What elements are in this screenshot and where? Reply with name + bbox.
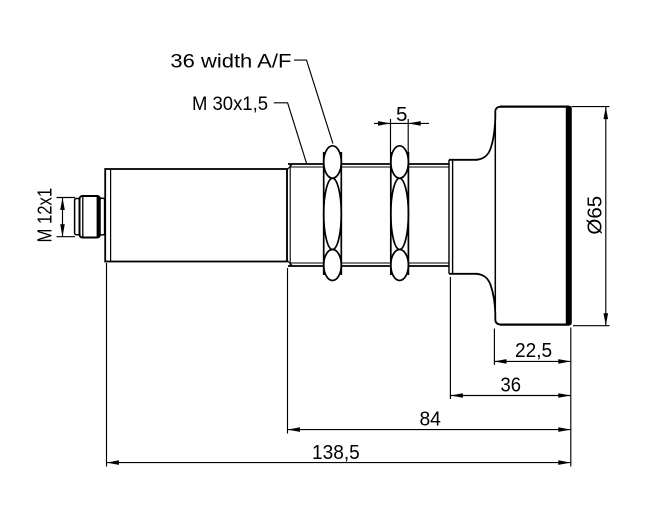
Ø65 arrow down bbox=[604, 313, 609, 326]
36 arrow right bbox=[558, 393, 571, 398]
hex nut N2 bottom facet ellipse bbox=[391, 250, 409, 281]
thread start face line inner bbox=[289, 164, 291, 266]
svg-text:36: 36 bbox=[501, 374, 522, 397]
hex nut N1 left side line bbox=[323, 152, 325, 275]
thread minor line top segment 2 bbox=[341, 166, 391, 168]
thread major line top segment 1 bbox=[288, 163, 324, 165]
5 dimension extension line right bbox=[407, 119, 409, 152]
head flare curve bottom bbox=[477, 274, 502, 325]
hex nut N2 left side line bbox=[390, 152, 392, 275]
M12 dimension extension line bottom bbox=[57, 236, 76, 238]
hex nut N2 top facet ellipse bbox=[391, 146, 409, 178]
M12 connector end ring bbox=[75, 199, 80, 235]
M12 connector barrel right dark band bbox=[97, 197, 100, 237]
36 extension line left bbox=[449, 277, 451, 399]
22,5 arrow right bbox=[558, 359, 571, 364]
5 dimension extension line left bbox=[390, 119, 392, 152]
svg-text:138,5: 138,5 bbox=[312, 441, 360, 464]
hex nut N1 bottom facet ellipse bbox=[324, 250, 342, 281]
138,5 extension line left bbox=[106, 263, 108, 467]
M12 connector collar bbox=[100, 198, 105, 235]
22,5 extension line left bbox=[493, 329, 495, 365]
leader line for 36 width A/F bbox=[294, 60, 333, 143]
head disc bottom edge bbox=[500, 324, 569, 326]
M12 dimension arrow down bbox=[60, 224, 65, 237]
84 arrow left bbox=[288, 427, 301, 432]
Ø65 extension line bottom bbox=[573, 325, 610, 327]
36 dimension line bbox=[450, 395, 570, 397]
sensor body cylinder outline bbox=[105, 169, 287, 262]
M12 dimension arrow up bbox=[60, 198, 65, 211]
svg-text:M 12x1: M 12x1 bbox=[34, 188, 57, 243]
head disc top edge bbox=[500, 105, 569, 107]
thread major line bottom segment 1 bbox=[288, 265, 324, 267]
thread start chamfer top bbox=[287, 164, 293, 170]
5 dimension arrow right (pointing left) bbox=[408, 121, 421, 126]
84 dimension line bbox=[288, 429, 571, 431]
hex nut N1 right side line bbox=[340, 152, 342, 275]
flange top edge bbox=[449, 159, 478, 161]
hex nut N1 mask bbox=[324, 146, 342, 281]
flange bottom edge bbox=[449, 273, 478, 275]
head sensing face black bar bbox=[566, 106, 572, 326]
thread end flange face line left bbox=[448, 160, 450, 274]
thread minor line bottom segment 3 bbox=[408, 262, 449, 264]
M12 dimension extension line top bbox=[57, 197, 76, 199]
hex nut N2 mask bbox=[391, 146, 409, 281]
thread end flange face line right bbox=[452, 160, 454, 274]
leader line for M 30x1,5 bbox=[274, 103, 307, 163]
thread minor line top segment 3 bbox=[408, 166, 449, 168]
right common extension line bbox=[570, 328, 572, 467]
138,5 arrow left bbox=[107, 460, 120, 465]
hex nut N2 right side line bbox=[407, 152, 409, 275]
thread minor line bottom segment 2 bbox=[341, 262, 391, 264]
5 dimension arrow left (pointing right) bbox=[378, 121, 391, 126]
Ø65 extension line top bbox=[572, 106, 610, 108]
svg-text:M 30x1,5: M 30x1,5 bbox=[192, 93, 268, 115]
head flare curve top bbox=[477, 107, 502, 160]
84 extension line left bbox=[287, 268, 289, 434]
138,5 dimension line bbox=[107, 462, 571, 464]
thread start chamfer bottom bbox=[287, 260, 293, 266]
thread major line top segment 3 bbox=[408, 163, 449, 165]
22,5 arrow left bbox=[494, 359, 507, 364]
84 arrow right bbox=[558, 427, 571, 432]
svg-text:22,5: 22,5 bbox=[515, 339, 552, 362]
hex nut N2 middle facet ellipse bbox=[391, 178, 409, 249]
thread major line bottom segment 2 bbox=[341, 265, 391, 267]
hex nut N1 top facet ellipse bbox=[324, 146, 342, 178]
sensor body left face inner line bbox=[110, 170, 112, 262]
M12 dimension line bbox=[62, 198, 64, 237]
Ø65 dimension line bbox=[605, 107, 607, 326]
head disc left silhouette line bbox=[494, 112, 496, 320]
M12 connector barrel bbox=[80, 196, 101, 238]
thread major line top segment 2 bbox=[341, 163, 391, 165]
svg-text:Ø65: Ø65 bbox=[584, 196, 607, 235]
22,5 dimension line bbox=[494, 360, 571, 362]
M12 connector barrel inner left line bbox=[82, 197, 84, 238]
138,5 arrow right bbox=[558, 460, 571, 465]
svg-text:36 width A/F: 36 width A/F bbox=[170, 50, 291, 72]
thread minor line top segment 1 bbox=[290, 166, 324, 168]
5 dimension line bbox=[374, 122, 429, 124]
hex nut N1 middle facet ellipse bbox=[324, 178, 342, 249]
thread minor line bottom segment 1 bbox=[290, 262, 324, 264]
thread start face line outer (chamfered) bbox=[286, 170, 288, 261]
36 arrow left bbox=[450, 393, 463, 398]
Ø65 arrow up bbox=[604, 107, 609, 120]
thread major line bottom segment 3 bbox=[408, 265, 449, 267]
svg-text:5: 5 bbox=[396, 103, 407, 126]
svg-text:84: 84 bbox=[419, 408, 441, 431]
